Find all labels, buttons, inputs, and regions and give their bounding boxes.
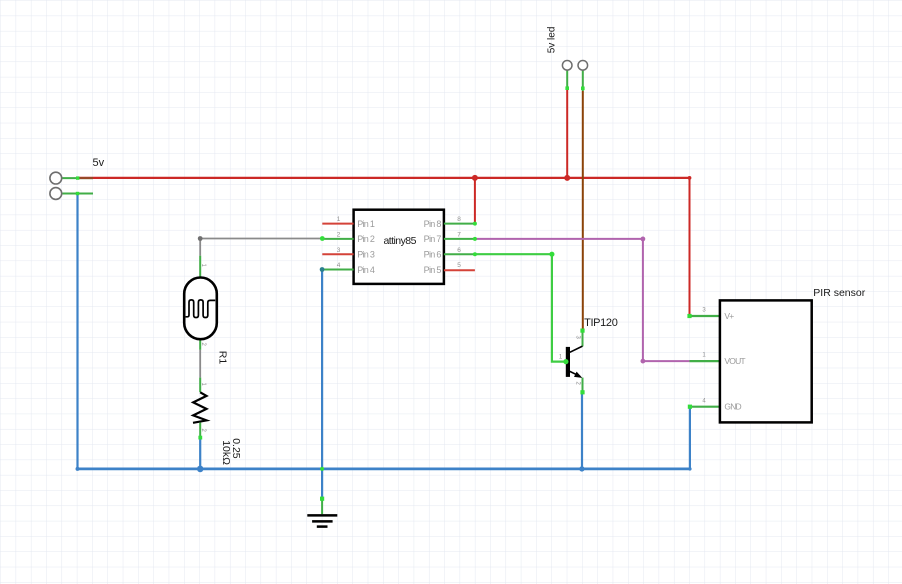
node purple corner bottom (641, 359, 646, 364)
node green at attiny pin7 stub end (473, 237, 477, 241)
node green square emitter joint (580, 390, 584, 394)
svg-text:Pin 8: Pin 8 (424, 219, 442, 229)
wire blue from R1 to ground bus (199, 437, 201, 469)
connector 5v led female header (562, 61, 587, 91)
svg-text:attiny85: attiny85 (384, 235, 417, 247)
node blue junction R1 on ground bus (197, 466, 204, 473)
svg-text:Pin 5: Pin 5 (424, 265, 442, 275)
node green at attiny pin2 stub (320, 236, 325, 241)
node green square GND joint (688, 405, 692, 409)
svg-text:7: 7 (457, 232, 461, 239)
node gray corner above photoresistor (198, 236, 203, 241)
wire blue ground bus (78, 467, 691, 470)
node green crossing attiny pin4 wire on ground bus (320, 467, 324, 471)
wire blue TIP120 emitter to ground bus (581, 392, 583, 469)
wire brown from 5v led connector 2 to TIP120 collector (582, 91, 584, 331)
svg-text:6: 6 (457, 247, 461, 254)
svg-text:8: 8 (457, 216, 461, 223)
node green square R1 bottom joint (198, 436, 202, 440)
svg-text:GND: GND (724, 402, 741, 412)
PIR sensor module (687, 300, 811, 422)
svg-text:Pin 6: Pin 6 (424, 250, 442, 260)
node junction green on 5v pin2 (76, 192, 79, 195)
ground symbol (307, 497, 337, 527)
wire blue from 5v connector 2 down (76, 194, 78, 469)
svg-text:TIP120: TIP120 (584, 317, 618, 329)
svg-text:4: 4 (337, 262, 341, 269)
node red junction at attiny pin8 column (472, 175, 478, 181)
svg-text:VOUT: VOUT (724, 356, 745, 366)
svg-text:V+: V+ (724, 311, 734, 321)
node teal at attiny pin4 stub (320, 267, 325, 272)
IC attiny85 (322, 210, 475, 284)
svg-text:Pin 3: Pin 3 (357, 250, 375, 260)
node green base joint (563, 359, 568, 364)
connector 5v female header (50, 172, 93, 199)
svg-text:Pin 1: Pin 1 (357, 219, 375, 229)
transistor TIP120 (559, 329, 585, 395)
svg-text:3: 3 (337, 247, 341, 254)
svg-text:5: 5 (457, 262, 461, 269)
svg-text:5v led: 5v led (546, 27, 557, 54)
svg-text:10kΩ: 10kΩ (220, 440, 232, 465)
wire gray attiny Pin2 to photoresistor (200, 239, 322, 256)
node junction green led pin2 (581, 87, 585, 91)
node junction green led pin1 (565, 86, 569, 90)
node green square V+ joint (687, 314, 691, 318)
node blue corner left end of ground bus (76, 467, 80, 471)
wire purple attiny Pin7 to PIR VOUT (475, 239, 690, 361)
node green corner of pin6 wire (549, 252, 554, 257)
wire green attiny Pin6 to TIP120 base (475, 254, 566, 361)
node junction green on 5v pin1 (76, 176, 79, 179)
node green at attiny pin6 stub end (473, 252, 477, 256)
svg-text:Pin 4: Pin 4 (357, 265, 375, 275)
wire blue PIR GND to ground bus (689, 407, 691, 469)
node blue junction TIP120 emitter on ground bus (579, 466, 584, 471)
wire red vertical to PIR V+ (689, 178, 691, 316)
node red corner at PIR column (688, 176, 692, 180)
svg-text:R1: R1 (217, 351, 229, 365)
wire red from 5v led connector 1 (566, 88, 568, 178)
svg-text:1: 1 (337, 216, 341, 223)
node blue corner right end of ground bus (688, 467, 691, 470)
wire red vertical to attiny Pin 8 (474, 178, 476, 224)
svg-text:Pin 7: Pin 7 (424, 234, 442, 244)
svg-text:PIR sensor: PIR sensor (813, 287, 865, 299)
wire gray photoresistor to R1 (199, 350, 201, 378)
node purple corner top right (641, 237, 646, 242)
resistor R1 zigzag (193, 378, 207, 438)
svg-text:2: 2 (337, 232, 341, 239)
wire blue attiny Pin4 to ground (321, 270, 323, 499)
svg-text:Pin 2: Pin 2 (357, 234, 375, 244)
wire red main power bus (78, 177, 690, 179)
node green square collector joint (580, 329, 584, 333)
node green small at attiny pin8 stub end (473, 222, 477, 226)
photoresistor LDR (184, 256, 217, 350)
svg-text:5v: 5v (93, 157, 105, 169)
node red junction at 5v-led column (564, 175, 570, 181)
